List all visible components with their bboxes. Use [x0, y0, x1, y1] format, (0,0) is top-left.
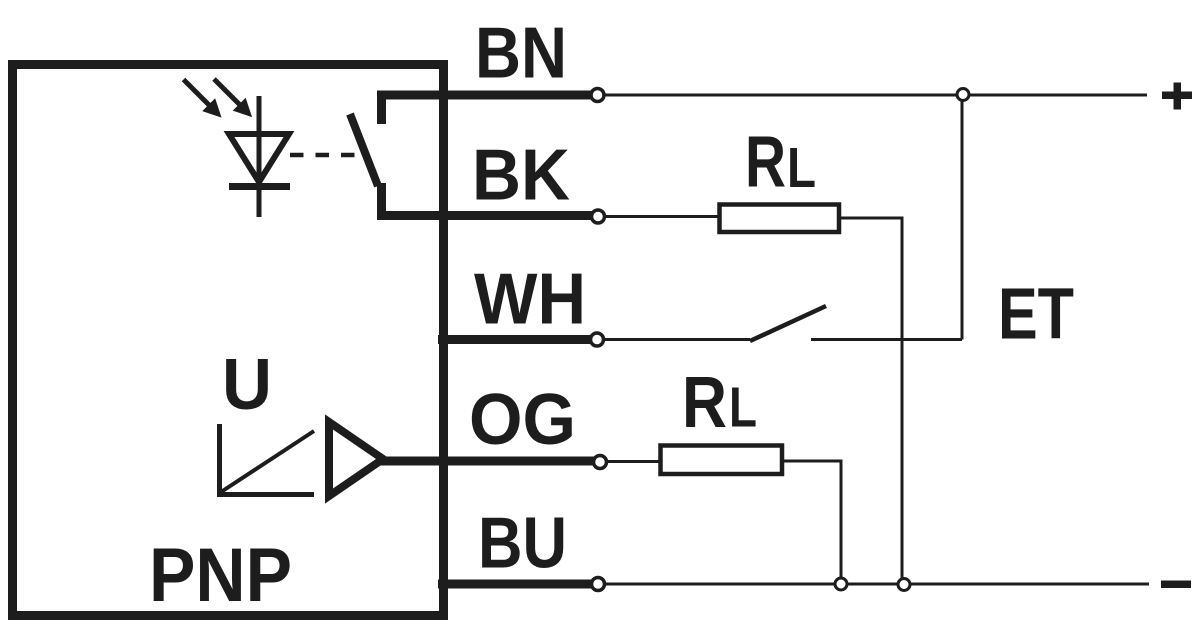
svg-text:WH: WH — [474, 259, 586, 340]
svg-text:PNP: PNP — [149, 533, 292, 618]
svg-text:BK: BK — [472, 135, 570, 216]
svg-text:BU: BU — [478, 503, 567, 584]
svg-text:R: R — [745, 122, 786, 203]
svg-text:R: R — [682, 362, 727, 443]
svg-text:BN: BN — [475, 13, 567, 94]
svg-text:OG: OG — [469, 379, 576, 460]
svg-text:L: L — [729, 376, 757, 440]
svg-text:ET: ET — [998, 274, 1074, 355]
svg-text:U: U — [222, 344, 272, 425]
svg-text:L: L — [787, 136, 816, 200]
